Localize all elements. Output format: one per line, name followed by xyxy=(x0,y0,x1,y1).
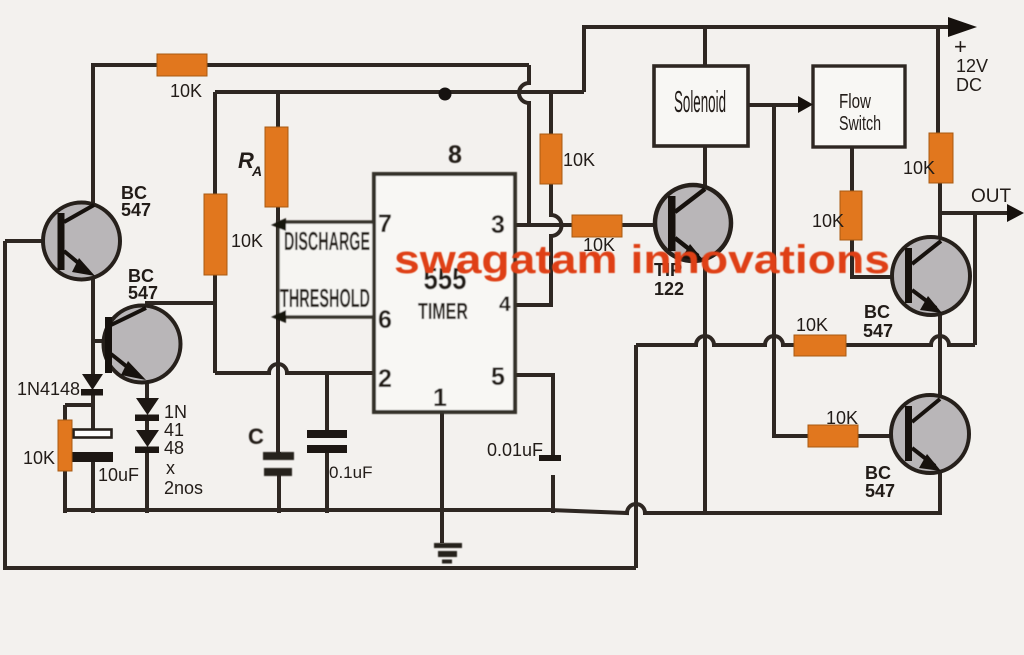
svg-text:x: x xyxy=(166,458,175,478)
svg-text:OUT: OUT xyxy=(971,186,1012,207)
svg-text:Switch: Switch xyxy=(839,113,881,135)
svg-text:swagatam innovations: swagatam innovations xyxy=(394,238,890,282)
svg-text:Solenoid: Solenoid xyxy=(674,84,726,119)
svg-text:547: 547 xyxy=(121,200,151,220)
svg-text:1N: 1N xyxy=(164,402,187,422)
svg-text:10K: 10K xyxy=(796,315,828,335)
svg-text:2: 2 xyxy=(378,365,392,393)
svg-text:BC: BC xyxy=(864,302,890,322)
svg-text:12V: 12V xyxy=(956,56,988,76)
svg-text:0.1uF: 0.1uF xyxy=(329,463,372,482)
svg-text:C: C xyxy=(248,424,264,449)
svg-text:0.01uF: 0.01uF xyxy=(487,440,543,460)
svg-text:10K: 10K xyxy=(903,158,935,178)
svg-text:TIMER: TIMER xyxy=(418,298,468,324)
svg-text:10K: 10K xyxy=(23,448,55,468)
svg-text:THRESHOLD: THRESHOLD xyxy=(280,283,370,313)
svg-text:547: 547 xyxy=(863,321,893,341)
svg-text:DC: DC xyxy=(956,75,982,95)
svg-text:10uF: 10uF xyxy=(98,465,139,485)
svg-text:A: A xyxy=(251,163,262,179)
svg-text:3: 3 xyxy=(491,211,505,239)
svg-text:547: 547 xyxy=(128,283,158,303)
svg-text:Flow: Flow xyxy=(839,91,871,113)
svg-text:8: 8 xyxy=(448,141,462,169)
svg-text:41: 41 xyxy=(164,420,184,440)
svg-text:10K: 10K xyxy=(826,408,858,428)
svg-text:BC: BC xyxy=(865,463,891,483)
svg-text:5: 5 xyxy=(491,363,505,391)
svg-text:48: 48 xyxy=(164,438,184,458)
svg-text:122: 122 xyxy=(654,279,684,299)
svg-text:DISCHARGE: DISCHARGE xyxy=(284,226,370,256)
svg-text:10K: 10K xyxy=(563,150,595,170)
svg-text:7: 7 xyxy=(378,210,392,238)
svg-text:6: 6 xyxy=(378,306,392,334)
svg-text:1: 1 xyxy=(433,384,447,412)
svg-text:2nos: 2nos xyxy=(164,478,203,498)
svg-text:4: 4 xyxy=(499,293,511,316)
svg-text:10K: 10K xyxy=(170,81,202,101)
svg-text:10K: 10K xyxy=(231,231,263,251)
svg-text:1N4148: 1N4148 xyxy=(17,379,80,399)
svg-text:10K: 10K xyxy=(812,211,844,231)
svg-text:547: 547 xyxy=(865,481,895,501)
